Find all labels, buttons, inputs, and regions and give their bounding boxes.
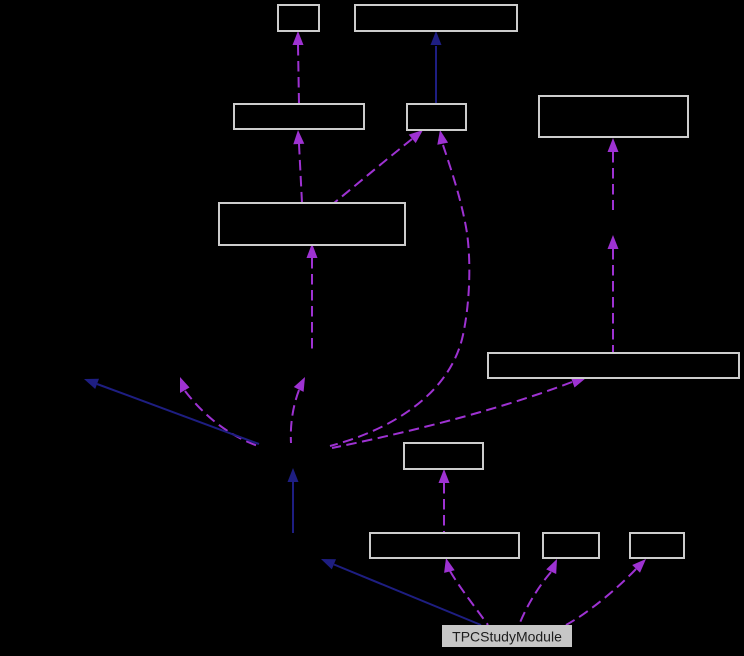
- svg-text:TPCStudyModule: TPCStudyModule: [452, 629, 562, 645]
- edge hidden nodeE -> node6 (dashed usage arrow): [307, 244, 318, 354]
- edge TPCStudyModule -> node11 (dashed usage arrow): [566, 559, 646, 625]
- edge node6 -> node3 (dashed usage arrow): [293, 130, 304, 203]
- edge hidden nodeF -> node5 (dashed usage arrow, upper part of right column): [608, 138, 619, 210]
- edge hidden nodeA -> hidden nodeD (solid inheritance arrow, long diagonal): [84, 379, 259, 444]
- edge TPCStudyModule -> node10 (dashed usage arrow): [519, 559, 557, 625]
- edge TPCStudyModule -> node9 (dashed usage arrow): [444, 558, 488, 625]
- edge node9 -> node8 (dashed usage arrow): [439, 469, 450, 533]
- node6: tall class box, row 3 (label hidden): [219, 203, 405, 245]
- edge node3 -> node1 (dashed usage arrow): [293, 31, 304, 104]
- node3: class box, row 2 left (label hidden): [234, 104, 364, 129]
- edge node4 -> node2 (solid inheritance arrow): [431, 31, 442, 104]
- node TPCStudyModule (current class, filled grey): [442, 625, 572, 647]
- edge hidden nodeA -> node7 (dashed usage arrow, long shallow diagonal): [332, 378, 586, 448]
- edge node6 -> node4 (dashed usage arrow, diagonal): [334, 130, 423, 203]
- node8: class box, middle (label hidden): [404, 443, 483, 469]
- node2: wide class box, top (label hidden): [355, 5, 517, 31]
- edge hidden nodeA -> node4 (dashed usage arrow, long right-bulging curve): [330, 130, 469, 446]
- node5: tall class box, row 2 right (label hidden): [539, 96, 688, 137]
- edge hidden nodeB -> hidden nodeA (solid inheritance arrow): [288, 468, 299, 533]
- node10: class box, bottom row middle (label hidden): [543, 533, 599, 558]
- edge hidden nodeA -> hidden nodeE (dashed usage arrow): [291, 377, 305, 443]
- node11: class box, bottom row right (label hidden): [630, 533, 684, 558]
- edge TPCStudyModule -> hidden nodeB (solid inheritance arrow, diagonal): [321, 559, 481, 625]
- node7: wide class box, middle right (label hidden): [488, 353, 739, 378]
- node9: class box, bottom row left (label hidden): [370, 533, 519, 558]
- node1: small class box, top-left (label hidden): [278, 5, 319, 31]
- edge node7 -> hidden nodeF (dashed usage arrow, lower part of right column): [608, 235, 619, 353]
- node4: class box, row 2 middle (label hidden): [407, 104, 466, 130]
- edge hidden nodeA -> hidden nodeC (dashed usage arrow): [180, 377, 258, 446]
